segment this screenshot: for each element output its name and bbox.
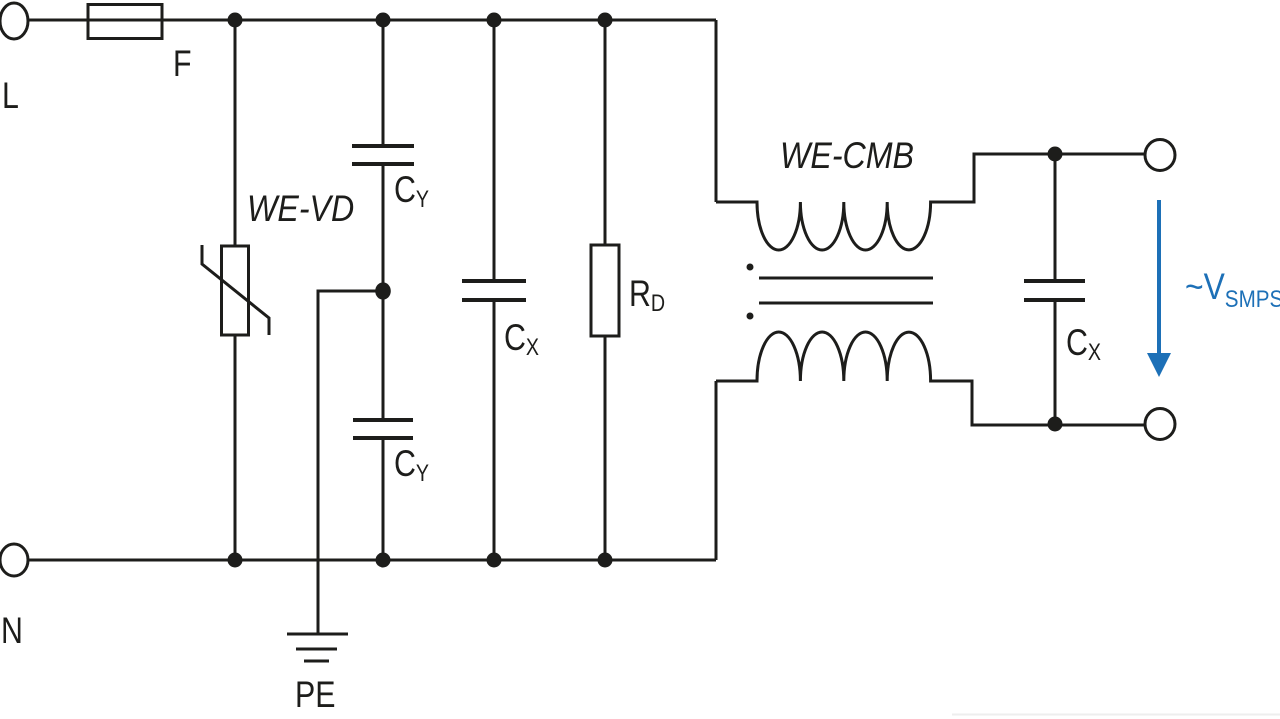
svg-text:F: F (173, 43, 192, 85)
svg-text:N: N (1, 610, 23, 652)
svg-text:PE: PE (295, 674, 335, 716)
svg-text:L: L (2, 75, 19, 117)
svg-text:WE-CMB: WE-CMB (780, 136, 914, 177)
svg-text:WE-VD: WE-VD (247, 189, 354, 230)
